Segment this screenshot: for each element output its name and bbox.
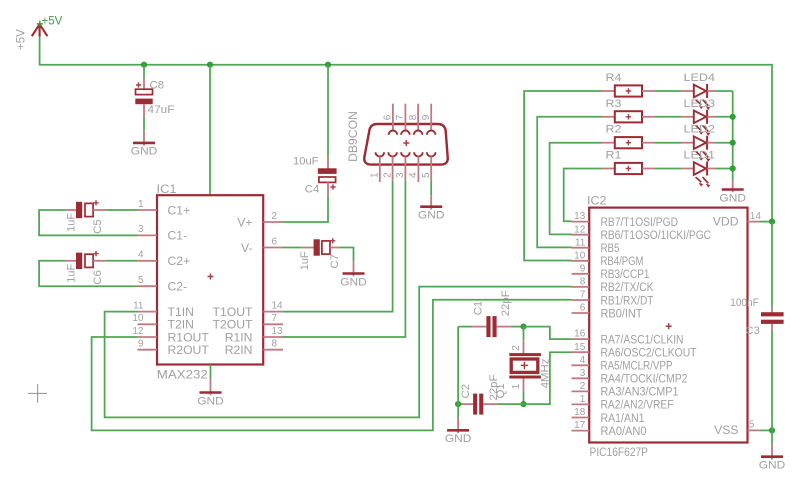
pin DB9.9 bbox=[427, 104, 436, 135]
svg-text:C1-: C1- bbox=[168, 229, 188, 243]
svg-text:C6: C6 bbox=[92, 270, 104, 285]
svg-text:3: 3 bbox=[580, 368, 586, 379]
wire rail to C8 bbox=[143, 65, 145, 78]
svg-text:47uF: 47uF bbox=[148, 104, 175, 116]
svg-text:22pF: 22pF bbox=[500, 290, 512, 316]
capacitor C4 10uF (electrolytic) bbox=[318, 157, 337, 195]
svg-text:RA7/ASC1/CLKIN: RA7/ASC1/CLKIN bbox=[601, 332, 684, 346]
pin IC2.10 stub bbox=[572, 260, 590, 262]
wire V- to C7 bbox=[283, 247, 302, 249]
wire crystal to OSC2 node bbox=[523, 392, 525, 404]
wire VSS to GND bbox=[771, 430, 773, 444]
svg-text:GND: GND bbox=[719, 192, 746, 204]
wire C8 to GND bbox=[143, 117, 145, 131]
ground under C2 bbox=[445, 430, 472, 445]
svg-text:12: 12 bbox=[132, 326, 144, 337]
pin IC2.4 stub bbox=[572, 364, 590, 366]
svg-text:14: 14 bbox=[272, 300, 284, 311]
svg-text:C2: C2 bbox=[460, 384, 472, 399]
svg-text:11: 11 bbox=[133, 300, 144, 311]
wire R2 to LED2 bbox=[655, 142, 681, 144]
svg-text:4: 4 bbox=[580, 355, 586, 366]
junction C2/C1 gnd node bbox=[455, 401, 461, 407]
svg-text:LED1: LED1 bbox=[684, 150, 716, 162]
svg-text:V-: V- bbox=[241, 241, 253, 255]
svg-text:1uF: 1uF bbox=[66, 213, 78, 232]
svg-text:RB0/INT: RB0/INT bbox=[601, 306, 643, 320]
pin DB9.6 bbox=[389, 104, 398, 135]
wire IC1 gnd bbox=[210, 365, 212, 379]
svg-text:1uF: 1uF bbox=[66, 263, 78, 282]
wire OSC2 to RA6 bbox=[524, 352, 572, 404]
svg-text:1: 1 bbox=[138, 199, 144, 210]
svg-text:R3: R3 bbox=[606, 98, 622, 110]
wire +5V rail bbox=[40, 36, 772, 222]
svg-text:RB1/RX/DT: RB1/RX/DT bbox=[601, 293, 654, 307]
svg-text:RA3/AN3/CMP1: RA3/AN3/CMP1 bbox=[601, 385, 679, 399]
svg-text:10: 10 bbox=[574, 250, 586, 261]
power symbol +5V P1 bbox=[32, 21, 48, 37]
wire R2 to IC2 pin bbox=[550, 143, 602, 235]
svg-text:RB3/CCP1: RB3/CCP1 bbox=[601, 267, 650, 281]
wire rail to IC1 VCC bbox=[209, 65, 211, 196]
wire C1 left bbox=[458, 326, 472, 328]
svg-text:10: 10 bbox=[132, 313, 144, 324]
svg-text:R1: R1 bbox=[606, 150, 622, 162]
LED LED2 bbox=[681, 136, 715, 162]
pin IC1.11 stub bbox=[138, 311, 158, 313]
pin IC1.3 stub bbox=[138, 234, 158, 236]
wire VDD to C3 bbox=[771, 222, 773, 307]
svg-text:LED3: LED3 bbox=[684, 98, 716, 110]
svg-text:LED2: LED2 bbox=[684, 124, 716, 136]
svg-text:DB9CON: DB9CON bbox=[346, 111, 360, 162]
svg-text:V+: V+ bbox=[237, 215, 252, 229]
wire DB9.5 to GND bbox=[430, 181, 432, 196]
junction rail/IC1 bbox=[207, 62, 213, 68]
pin IC2.12 stub bbox=[572, 234, 590, 236]
wire R3 to IC2 pin bbox=[537, 117, 602, 248]
svg-text:RB4/PGM: RB4/PGM bbox=[601, 254, 644, 268]
svg-text:3: 3 bbox=[138, 224, 144, 235]
wire R4 to IC2 pin bbox=[524, 91, 602, 261]
svg-text:16: 16 bbox=[574, 329, 586, 340]
pin DB9.2 bbox=[388, 152, 397, 180]
wire R1 to LED1 bbox=[655, 168, 681, 170]
svg-text:C7: C7 bbox=[329, 254, 341, 269]
svg-text:C4: C4 bbox=[305, 183, 320, 195]
resistor R2 bbox=[602, 137, 655, 148]
svg-text:IC1: IC1 bbox=[157, 182, 177, 196]
svg-text:PIC16F627P: PIC16F627P bbox=[590, 445, 649, 459]
pin IC1.10 stub bbox=[138, 323, 158, 325]
junction VSS rail bbox=[769, 427, 775, 433]
svg-text:8: 8 bbox=[408, 114, 419, 120]
svg-text:+5V: +5V bbox=[16, 29, 28, 50]
pin DB9.4 bbox=[414, 152, 423, 182]
origin cross IC2 bbox=[666, 323, 672, 329]
LED LED3 bbox=[681, 110, 715, 136]
svg-text:C1+: C1+ bbox=[168, 203, 191, 217]
connector DB9CON body bbox=[364, 124, 447, 165]
pin DB9.7 bbox=[401, 104, 410, 135]
pin IC1.9 stub bbox=[138, 349, 158, 351]
svg-text:100nF: 100nF bbox=[730, 297, 759, 309]
wire LED1 cathode bbox=[715, 168, 733, 170]
svg-text:2: 2 bbox=[272, 211, 278, 222]
svg-text:4: 4 bbox=[408, 172, 419, 178]
junction LED2 bus bbox=[730, 140, 736, 146]
pin DB9.3 bbox=[401, 152, 410, 180]
pin IC1.14 stub bbox=[263, 311, 283, 313]
junction VDD rail bbox=[769, 219, 775, 225]
svg-text:2: 2 bbox=[382, 172, 393, 178]
svg-text:14: 14 bbox=[750, 211, 762, 222]
pin IC1.12 stub bbox=[138, 336, 158, 338]
junction rail/C4 bbox=[325, 62, 331, 68]
origin cross IC1 bbox=[208, 274, 214, 280]
svg-text:1: 1 bbox=[511, 383, 522, 389]
svg-text:IC2: IC2 bbox=[587, 193, 607, 207]
junction OSC1 node bbox=[520, 324, 526, 330]
crystal Q1 4MHz bbox=[509, 340, 541, 392]
pin IC1 gnd stub bbox=[210, 378, 212, 395]
pin IC1.4 stub bbox=[138, 260, 158, 262]
wire R1OUT to RB1 (RX) bbox=[92, 300, 572, 431]
svg-text:RA6/OSC2/CLKOUT: RA6/OSC2/CLKOUT bbox=[601, 346, 697, 360]
svg-text:2: 2 bbox=[511, 345, 522, 351]
wire R1 to IC2 pin bbox=[564, 169, 602, 222]
svg-text:17: 17 bbox=[574, 420, 586, 431]
svg-text:9: 9 bbox=[421, 114, 432, 120]
svg-text:+5V: +5V bbox=[42, 16, 63, 28]
op-amp IC1 MAX232 body bbox=[157, 195, 263, 364]
svg-text:9: 9 bbox=[580, 263, 586, 274]
wire R4 to LED4 bbox=[655, 90, 681, 92]
ground under C8 bbox=[131, 143, 158, 158]
pin IC2.2 stub bbox=[572, 390, 590, 392]
pin DB9.1 bbox=[376, 152, 385, 182]
wire C3 to VSS bbox=[771, 330, 773, 430]
svg-text:13: 13 bbox=[272, 326, 284, 337]
capacitor C3 100nF bbox=[761, 307, 784, 331]
wire C6 bracket bbox=[39, 261, 137, 286]
pin VSS gnd stub bbox=[771, 445, 773, 460]
wire OSC1 to RA7 bbox=[524, 327, 572, 340]
ground under LEDs bbox=[719, 190, 746, 205]
capacitor C7 1uF (electrolytic) bbox=[302, 238, 340, 256]
ground under DB9 bbox=[418, 207, 445, 222]
pin IC2.16 stub bbox=[572, 338, 590, 340]
junction LED3 bus bbox=[730, 114, 736, 120]
svg-text:RA4/TOCKI/CMP2: RA4/TOCKI/CMP2 bbox=[601, 372, 688, 386]
svg-text:7: 7 bbox=[272, 313, 278, 324]
capacitor C5 1uF (electrolytic) bbox=[66, 200, 107, 218]
origin cross DB9CON bbox=[403, 140, 409, 146]
junction LED1 bus bbox=[730, 165, 736, 171]
capacitor C1 22pF bbox=[472, 316, 511, 337]
svg-text:RA1/AN1: RA1/AN1 bbox=[601, 411, 645, 425]
resistor R4 bbox=[602, 85, 655, 96]
pin DB9 gnd stub bbox=[430, 195, 432, 209]
wire C7 to GND bbox=[340, 248, 354, 262]
wire R3 to LED3 bbox=[655, 116, 681, 118]
pin IC1.1 stub bbox=[138, 209, 158, 211]
svg-text:LED4: LED4 bbox=[684, 72, 716, 84]
pin DB9.5 bbox=[427, 152, 436, 180]
wire C5 bracket bbox=[39, 210, 137, 235]
pin IC1.7 stub bbox=[263, 323, 283, 325]
svg-text:22pF: 22pF bbox=[488, 374, 500, 400]
pin IC2.13 stub bbox=[572, 221, 590, 223]
svg-text:7: 7 bbox=[395, 114, 406, 120]
pin IC2.5 VSS stub bbox=[748, 429, 761, 431]
pin IC1.5 stub bbox=[138, 285, 158, 287]
wire rail to C4 bbox=[327, 65, 329, 157]
pin IC2.3 stub bbox=[572, 377, 590, 379]
wire VSS link bbox=[760, 429, 772, 431]
svg-text:RB2/TX/CK: RB2/TX/CK bbox=[601, 280, 654, 294]
svg-text:GND: GND bbox=[340, 276, 367, 288]
pin IC2.6 stub bbox=[572, 312, 590, 314]
svg-text:VDD: VDD bbox=[713, 214, 739, 228]
svg-text:GND: GND bbox=[418, 210, 445, 222]
wire T1OUT to DB9.2 bbox=[283, 181, 393, 312]
svg-text:9: 9 bbox=[138, 339, 144, 350]
pin C7 gnd stub bbox=[353, 261, 355, 276]
wire R1IN to DB9.3 bbox=[283, 181, 405, 337]
svg-text:GND: GND bbox=[197, 395, 224, 407]
svg-text:C2+: C2+ bbox=[168, 254, 191, 268]
svg-text:RA2/AN2/VREF: RA2/AN2/VREF bbox=[601, 398, 674, 412]
junction rail/C8 bbox=[141, 62, 147, 68]
svg-text:RA5/MCLR/VPP: RA5/MCLR/VPP bbox=[601, 359, 673, 373]
svg-text:GND: GND bbox=[131, 146, 158, 158]
svg-text:VSS: VSS bbox=[714, 423, 738, 437]
svg-text:6: 6 bbox=[383, 114, 394, 120]
pin DB9.8 bbox=[414, 104, 423, 135]
svg-text:8: 8 bbox=[580, 277, 586, 288]
svg-text:6: 6 bbox=[580, 303, 586, 314]
sheet origin cross bbox=[28, 384, 47, 403]
IC U2 PIC16F627P body bbox=[589, 208, 747, 443]
svg-text:R2: R2 bbox=[606, 124, 622, 136]
pin IC2.7 stub bbox=[572, 299, 590, 301]
resistor R1 bbox=[602, 163, 655, 174]
pin LED gnd stub bbox=[732, 180, 734, 192]
wire C1-C2 ground link bbox=[457, 327, 459, 418]
svg-text:C8: C8 bbox=[150, 79, 165, 91]
svg-text:3: 3 bbox=[395, 172, 406, 178]
LED LED4 bbox=[681, 84, 715, 110]
wire C2 to OSC2 node bbox=[498, 403, 524, 405]
svg-text:1: 1 bbox=[370, 172, 381, 178]
svg-text:R2IN: R2IN bbox=[225, 343, 253, 357]
pin IC2.11 stub bbox=[572, 247, 590, 249]
junction OSC2 node bbox=[520, 401, 526, 407]
svg-text:13: 13 bbox=[574, 211, 586, 222]
svg-text:R2OUT: R2OUT bbox=[168, 343, 210, 357]
pin IC2.18 stub bbox=[572, 417, 590, 419]
svg-text:10uF: 10uF bbox=[293, 155, 319, 167]
capacitor C6 1uF (electrolytic) bbox=[66, 251, 107, 269]
LED LED1 bbox=[681, 162, 715, 188]
svg-text:1: 1 bbox=[580, 394, 586, 405]
pin C8 gnd stub bbox=[143, 131, 145, 146]
wire LED4 cathode bbox=[715, 90, 733, 92]
pin IC2.1 stub bbox=[572, 403, 590, 405]
pin IC2.15 stub bbox=[572, 351, 590, 353]
svg-text:6: 6 bbox=[272, 236, 278, 247]
pin IC1.8 stub bbox=[263, 349, 283, 351]
wire LED2 cathode bbox=[715, 142, 733, 144]
wire C2 left link bbox=[458, 403, 462, 405]
svg-text:RA0/AN0: RA0/AN0 bbox=[601, 424, 647, 438]
svg-text:5: 5 bbox=[421, 172, 432, 178]
svg-text:MAX232: MAX232 bbox=[157, 368, 208, 382]
svg-text:RB5: RB5 bbox=[601, 241, 620, 255]
svg-text:4: 4 bbox=[138, 250, 144, 261]
pin C2 gnd stub bbox=[457, 418, 459, 434]
wire C1 to OSC1 node bbox=[511, 326, 524, 328]
capacitor C8 47uF (electrolytic) bbox=[135, 78, 152, 118]
pin IC2.8 stub bbox=[572, 286, 590, 288]
svg-text:C5: C5 bbox=[92, 219, 104, 234]
svg-text:C1: C1 bbox=[473, 301, 485, 316]
wire OSC1 to crystal bbox=[523, 327, 525, 341]
wire LED cathode bus bbox=[732, 91, 734, 180]
svg-text:R4: R4 bbox=[606, 72, 622, 84]
pin IC1.6 stub bbox=[263, 247, 283, 249]
wire LED3 cathode bbox=[715, 116, 733, 118]
pin IC1.2 stub bbox=[263, 221, 283, 223]
ground under IC1 bbox=[197, 393, 224, 408]
wire C4 to IC1 V+ bbox=[283, 195, 328, 222]
svg-text:RB7/T1OSI/PGD: RB7/T1OSI/PGD bbox=[601, 215, 679, 229]
pin IC2.17 stub bbox=[572, 430, 590, 432]
pin IC2.9 stub bbox=[572, 273, 590, 275]
svg-text:7: 7 bbox=[580, 290, 586, 301]
svg-text:C2-: C2- bbox=[168, 280, 188, 294]
svg-text:2: 2 bbox=[580, 381, 586, 392]
svg-text:8: 8 bbox=[272, 339, 278, 350]
svg-text:GND: GND bbox=[445, 433, 472, 445]
wire T1IN to RB2 (TX) bbox=[105, 287, 572, 418]
resistor R3 bbox=[602, 111, 655, 122]
svg-text:GND: GND bbox=[759, 460, 786, 472]
ground under C7 bbox=[340, 274, 367, 289]
pin IC2.14 VDD stub bbox=[748, 221, 761, 223]
svg-text:5: 5 bbox=[749, 420, 755, 431]
ground under VSS bbox=[759, 457, 786, 472]
wire C6 to pin bbox=[107, 260, 138, 262]
svg-text:C3: C3 bbox=[745, 325, 760, 337]
svg-text:18: 18 bbox=[574, 407, 586, 418]
svg-text:1uF: 1uF bbox=[299, 251, 311, 270]
svg-text:11: 11 bbox=[575, 237, 586, 248]
svg-text:15: 15 bbox=[574, 342, 586, 353]
svg-text:5: 5 bbox=[138, 275, 144, 286]
svg-text:RB6/T1OSO/1ICKI/PGC: RB6/T1OSO/1ICKI/PGC bbox=[601, 228, 712, 242]
pin IC1.13 stub bbox=[263, 336, 283, 338]
capacitor C2 22pF bbox=[462, 394, 498, 415]
wire VDD link bbox=[760, 221, 772, 223]
svg-text:12: 12 bbox=[574, 224, 586, 235]
wire C5 to pin bbox=[107, 209, 138, 211]
